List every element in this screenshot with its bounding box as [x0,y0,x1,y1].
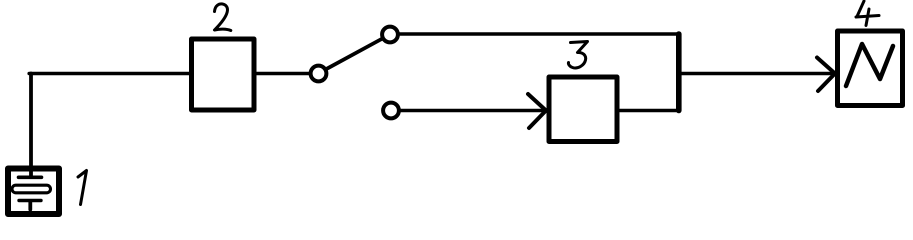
wire lower contact to block 3 [400,109,545,113]
switch common contact [311,66,327,82]
wire from node to block 2 input [29,72,189,76]
top bypass wire [399,32,679,36]
wire from block 1 up to main horizontal line [29,74,33,177]
recorder N symbol inside block 4 [846,44,893,86]
label 1 [78,171,87,205]
cell lower plate inside block 1 [19,199,41,202]
arrowhead into block 3 [528,94,546,128]
block 2 [192,39,255,110]
wire block 2 output to switch common [256,72,309,76]
cell upper plate inside block 1 [19,176,42,180]
cell lower tick inside block 1 [28,201,32,210]
label 2 [215,4,231,31]
block 3 [549,77,617,142]
junction vertical wire [676,34,682,111]
switch upper throw contact [382,27,398,43]
block 4 [838,31,903,106]
cell pill electrode inside block 1 [12,185,51,193]
wire block 3 output to junction [620,109,678,113]
arrowhead into block 4 [817,58,835,92]
switch blade [326,39,383,70]
label 4 [856,1,879,26]
label 3 [568,42,587,68]
wire junction to block 4 [678,72,833,76]
switch lower throw contact [383,103,399,119]
block 1 (voltage source / normal cell) [8,169,59,215]
